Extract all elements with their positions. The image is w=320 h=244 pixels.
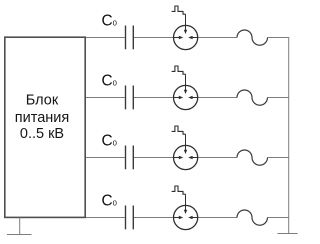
svg-text:Блок: Блок (26, 92, 59, 108)
svg-text:0..5 кВ: 0..5 кВ (20, 126, 64, 142)
svg-text:питания: питания (15, 110, 69, 126)
